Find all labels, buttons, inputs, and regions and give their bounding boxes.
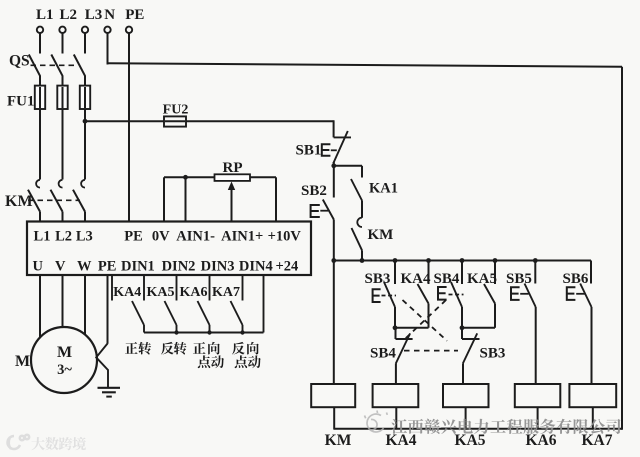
svg-text:SB6: SB6 [563,271,589,287]
pushbutton SB3 actuator dash [382,295,397,297]
wire bus to KA4 contact [428,261,430,285]
svg-text:N: N [104,7,115,23]
fuse FU1 pole 3 [80,86,90,109]
wire PE down to inverter [128,33,130,221]
switch QS blade pole 2 [51,55,62,76]
node control bus x333 [331,258,336,263]
wire SB2 to bus [333,220,335,261]
wire KM to inverter pole 1 [39,212,41,222]
svg-text:KA5: KA5 [455,432,486,449]
node control bus x362 [360,258,365,263]
wire node to SB2 [333,166,335,198]
contactor KM aux blade [352,228,363,250]
svg-text:SB3: SB3 [365,271,391,287]
label diandong (jog) 1 [198,355,224,368]
svg-text:L3: L3 [76,229,93,245]
svg-text:L3: L3 [85,7,103,23]
relay contact KA1 blade [351,179,362,201]
svg-text:AIN1-: AIN1- [176,229,215,245]
motor M1 circle [31,327,97,393]
relay contact blade KA7 [231,301,243,325]
switch QS blade pole 1 [29,55,40,76]
interlock dash horizontal [404,350,458,352]
svg-text:L1: L1 [36,7,54,23]
pushbutton SB6 actuator dash [576,293,585,295]
wire QS to KM pole 3 [84,76,86,180]
pushbutton SB2 actuator E [311,205,320,217]
pushbutton SB4 NC blade [396,333,410,363]
coil KA5 [443,384,489,407]
wire KA5 contact to join [494,304,496,328]
relay contact blade KA6 [198,301,210,325]
coil KA6 [515,384,561,407]
wire L2 to QS [62,33,64,53]
wire SB4 NC to KA4 coil [395,364,397,385]
wire N top rail [108,63,623,67]
node below SB1 [331,163,336,168]
svg-text:0V: 0V [152,229,170,245]
coil KA7 [569,384,616,407]
svg-text:DIN3: DIN3 [201,259,235,275]
wire KM aux to bus [361,250,363,260]
wire U to motor [39,275,41,337]
wire AIN1- drop [185,177,187,221]
node +24 bus j2 [207,330,211,334]
svg-text:KA5: KA5 [467,271,497,287]
contactor KM fixed-contact arc pole 3 [81,180,85,188]
pushbutton SB1 actuator dash [331,149,337,151]
contactor KM blade pole 3 [73,190,85,212]
node FU2 tap on L3 [83,119,88,124]
wire L3 to QS [84,33,86,53]
fuse FU1 pole 2 wire inside [62,87,64,108]
wire SB1 to node [333,162,335,166]
wire node to KA1 branch [334,165,362,167]
wire V to motor [62,275,64,327]
wire KA5 coil to rail [465,407,467,430]
terminal L2 [59,27,65,33]
QS mechanical link (dashed) [31,64,79,66]
contactor KM blade pole 2 [51,190,63,212]
terminal L1 [37,27,43,33]
contactor KM fixed-contact arc pole 2 [59,180,63,188]
wire bus to SB4 [461,261,463,285]
switch QS blade pole 3 [74,55,85,76]
inverter box U1 [27,222,311,276]
wire bus to SB5 [534,261,536,284]
wire join to SB4 NC [395,328,397,339]
pushbutton SB6 blade [580,284,591,308]
wire SB3 NC to KA5 coil [462,363,464,384]
node control bus x495 [493,258,498,263]
wire N down [107,33,109,64]
svg-text:QS: QS [9,53,30,70]
wire KA7 coil to rail [592,407,594,430]
svg-text:SB5: SB5 [506,271,532,287]
watermark daishu kuajing [31,437,85,450]
svg-text:SB3: SB3 [480,346,506,362]
label zhengxiang (forward jog line1) [193,342,220,355]
wire +24 bus [144,332,264,334]
coil KA4 [373,384,419,407]
svg-text:KA4: KA4 [401,271,432,287]
wire bus corner to SB6 [590,261,592,284]
wire QS to KM pole 2 [62,76,64,180]
svg-text:DIN1: DIN1 [121,259,155,275]
wire KA1 to KM aux [361,201,363,218]
pushbutton SB3 actuator E [373,289,381,302]
wire FU2 inside [165,120,185,122]
pushbutton SB2 blade [323,200,334,220]
svg-text:DIN4: DIN4 [239,259,273,275]
pushbutton SB3 NC blade [463,333,477,363]
svg-text:M: M [15,353,30,370]
wire DIN stub 3 [176,275,178,301]
svg-text:KA7: KA7 [582,432,613,449]
wire 0V drop [163,177,165,221]
svg-text:L2: L2 [55,229,72,245]
svg-text:DIN2: DIN2 [162,259,196,275]
wire QS to KM pole 1 [39,76,41,180]
node control bus x428 [426,258,431,263]
svg-text:PE: PE [125,7,144,23]
pushbutton SB2 actuator dash [320,210,328,212]
RP wiper arrowhead [228,182,235,191]
pushbutton SB1 actuator E [322,144,331,156]
fuse FU1 pole 2 [57,86,67,109]
pushbutton SB5 actuator E [511,287,520,300]
wire right rail [621,67,623,430]
node +24 bus j1 [174,330,178,334]
svg-text:L1: L1 [34,229,51,245]
svg-text:SB4: SB4 [370,346,396,362]
pushbutton SB4 actuator dash [449,294,464,296]
svg-text:KA5: KA5 [147,285,175,300]
svg-text:FU1: FU1 [7,94,35,110]
wire KA4 coil to rail [395,407,397,430]
wire KA6 coil to rail [537,407,539,430]
wire RP wiper [231,186,233,222]
svg-text:W: W [77,259,92,275]
wire FU2 to SB1 [186,120,334,122]
svg-text:AIN1+: AIN1+ [221,229,263,245]
pushbutton SB5 blade [525,284,536,308]
wire join to SB3 NC [461,328,463,339]
node +24 bus j3 [240,330,244,334]
pushbutton SB4 NC seat [396,338,413,340]
terminal N [104,27,110,33]
svg-text:+10V: +10V [268,229,302,245]
fuse FU1 pole 3 wire inside [84,87,86,108]
svg-text:3~: 3~ [57,362,72,378]
wire KM to inverter pole 3 [84,212,86,222]
interlock dash SB3-to-SB3NC [403,300,448,341]
svg-text:KM: KM [325,432,352,449]
wire DIN stub 4 [209,275,211,301]
wire SB3 to join [394,307,396,328]
pushbutton SB4 blade [451,282,462,307]
wire KM to inverter pole 2 [62,212,64,222]
wire bus to KA5 contact [494,261,496,285]
label diandong (jog) 2 [235,355,261,368]
fuse FU1 pole 1 wire inside [39,87,41,108]
wire KA5 contact to +24 bus [176,325,178,333]
contactor KM blade pole 1 [28,190,40,212]
wire W to motor [84,275,86,335]
svg-text:SB1: SB1 [296,143,322,159]
svg-text:KA6: KA6 [180,285,208,300]
svg-text:KA7: KA7 [212,285,240,300]
coil KM [311,384,355,407]
svg-text:V: V [55,259,66,275]
wire PE jog to motor frame [96,344,108,388]
svg-text:SB2: SB2 [301,183,327,199]
wire +10V drop [275,177,277,221]
wire DIN stub 1 [111,275,113,301]
wire SB5 to KA6 coil [535,307,537,384]
svg-text:KA1: KA1 [369,181,398,197]
svg-text:+24: +24 [276,259,299,275]
node control bus x395 [393,258,398,263]
wire RP horizontal [164,176,276,178]
ground symbol [98,387,121,389]
node control bus x462 [460,258,465,263]
wire SB4-KA5 join bar [462,327,495,329]
wire DIN stub 2 [143,275,145,301]
pushbutton SB1 seat [334,136,351,138]
wire SB3-KA4 join bar [395,327,429,329]
watermark bottom-left icon [7,435,29,449]
wire FU2 left [85,120,164,122]
wire KA4 contact to +24 bus [143,325,145,333]
svg-text:KA4: KA4 [113,285,141,300]
wire KA4 contact to join [428,304,430,328]
relay contact blade KA5 [165,301,177,325]
pushbutton SB1 blade [333,131,348,164]
wire SB4 to join [461,307,463,328]
svg-text:KM: KM [368,227,394,243]
wire bus to KM coil [333,261,335,385]
contactor KM aux fixed-contact arc [357,218,362,227]
fuse FU1 pole 1 [35,86,45,109]
pushbutton SB4 actuator E [438,287,447,300]
wire DIN stub 5 [242,275,244,301]
watermark company name [391,419,620,434]
relay contact KA4 blade [418,284,429,304]
wire KA6 contact to +24 bus [209,325,211,333]
svg-text:U: U [33,259,44,275]
wire FU2 corner down [333,120,335,137]
wire SB6 to KA7 coil [591,307,593,384]
svg-text:KA4: KA4 [386,432,417,449]
svg-text:PE: PE [124,229,143,245]
label fanxiang (reverse jog line1) [232,342,259,355]
pushbutton SB5 actuator dash [520,293,528,295]
pushbutton SB6 actuator E [567,287,576,300]
label zhengzhuan (forward) [125,342,151,355]
relay contact KA5 blade [484,284,495,304]
relay contact blade KA4 [132,301,144,325]
svg-text:KA6: KA6 [526,432,557,449]
svg-text:L2: L2 [60,7,78,23]
label fanzhuan (reverse) [161,342,187,355]
fuse FU2 [164,116,186,126]
terminal PE [126,27,132,33]
wire L1 to QS [39,33,41,53]
node AIN1- tap [183,175,188,180]
terminal L3 [82,27,88,33]
svg-text:M: M [57,344,72,361]
wire KA7 contact to +24 bus [242,325,244,333]
node control bus x535 [533,258,538,263]
svg-text:PE: PE [98,259,117,275]
pushbutton SB3 blade [384,282,395,307]
wire +24 riser [263,275,265,333]
contactor KM fixed-contact arc pole 1 [36,180,40,188]
interlock dash SB4-to-SB4NC [403,300,446,341]
svg-text:SB4: SB4 [434,271,460,287]
pushbutton SB3 NC seat [462,338,480,340]
svg-text:KM: KM [5,193,33,210]
wire bottom rail [334,428,622,430]
wire KM coil to rail [333,407,335,430]
wire control bus [334,260,591,262]
svg-text:FU2: FU2 [163,103,189,118]
node SB3-KA4 join [393,325,398,330]
wire PE drop [107,275,109,344]
watermark swirl logo [365,411,388,432]
KM mechanical link (dashed) [28,199,80,201]
node SB4-KA5 join [460,325,465,330]
wire bus to SB3 [394,261,396,285]
potentiometer RP body [215,174,251,181]
